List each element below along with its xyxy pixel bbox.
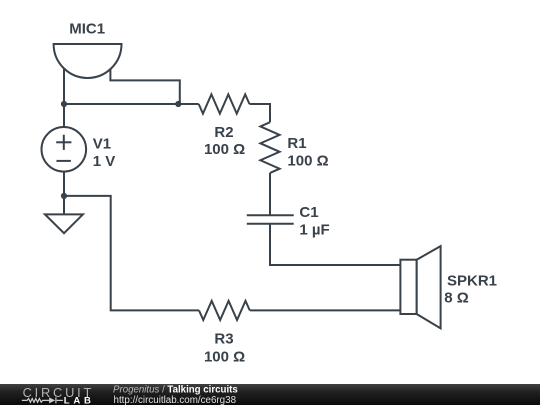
svg-text:LAB: LAB xyxy=(64,395,95,405)
svg-text:R3: R3 xyxy=(214,331,233,348)
svg-text:http://circuitlab.com/ce6rg38: http://circuitlab.com/ce6rg38 xyxy=(114,395,237,405)
svg-text:C1: C1 xyxy=(299,204,318,221)
svg-text:1 µF: 1 µF xyxy=(299,221,329,238)
svg-text:Progenitus / Talking circuits: Progenitus / Talking circuits xyxy=(113,385,238,396)
svg-text:100 Ω: 100 Ω xyxy=(204,348,245,365)
svg-text:100 Ω: 100 Ω xyxy=(287,153,328,170)
svg-text:R2: R2 xyxy=(214,124,233,141)
svg-text:R1: R1 xyxy=(287,135,306,152)
svg-text:8 Ω: 8 Ω xyxy=(444,290,469,307)
svg-text:SPKR1: SPKR1 xyxy=(447,273,497,290)
svg-text:MIC1: MIC1 xyxy=(69,20,105,37)
svg-text:V1: V1 xyxy=(93,135,111,152)
svg-text:1 V: 1 V xyxy=(93,153,116,170)
svg-text:100 Ω: 100 Ω xyxy=(204,141,245,158)
